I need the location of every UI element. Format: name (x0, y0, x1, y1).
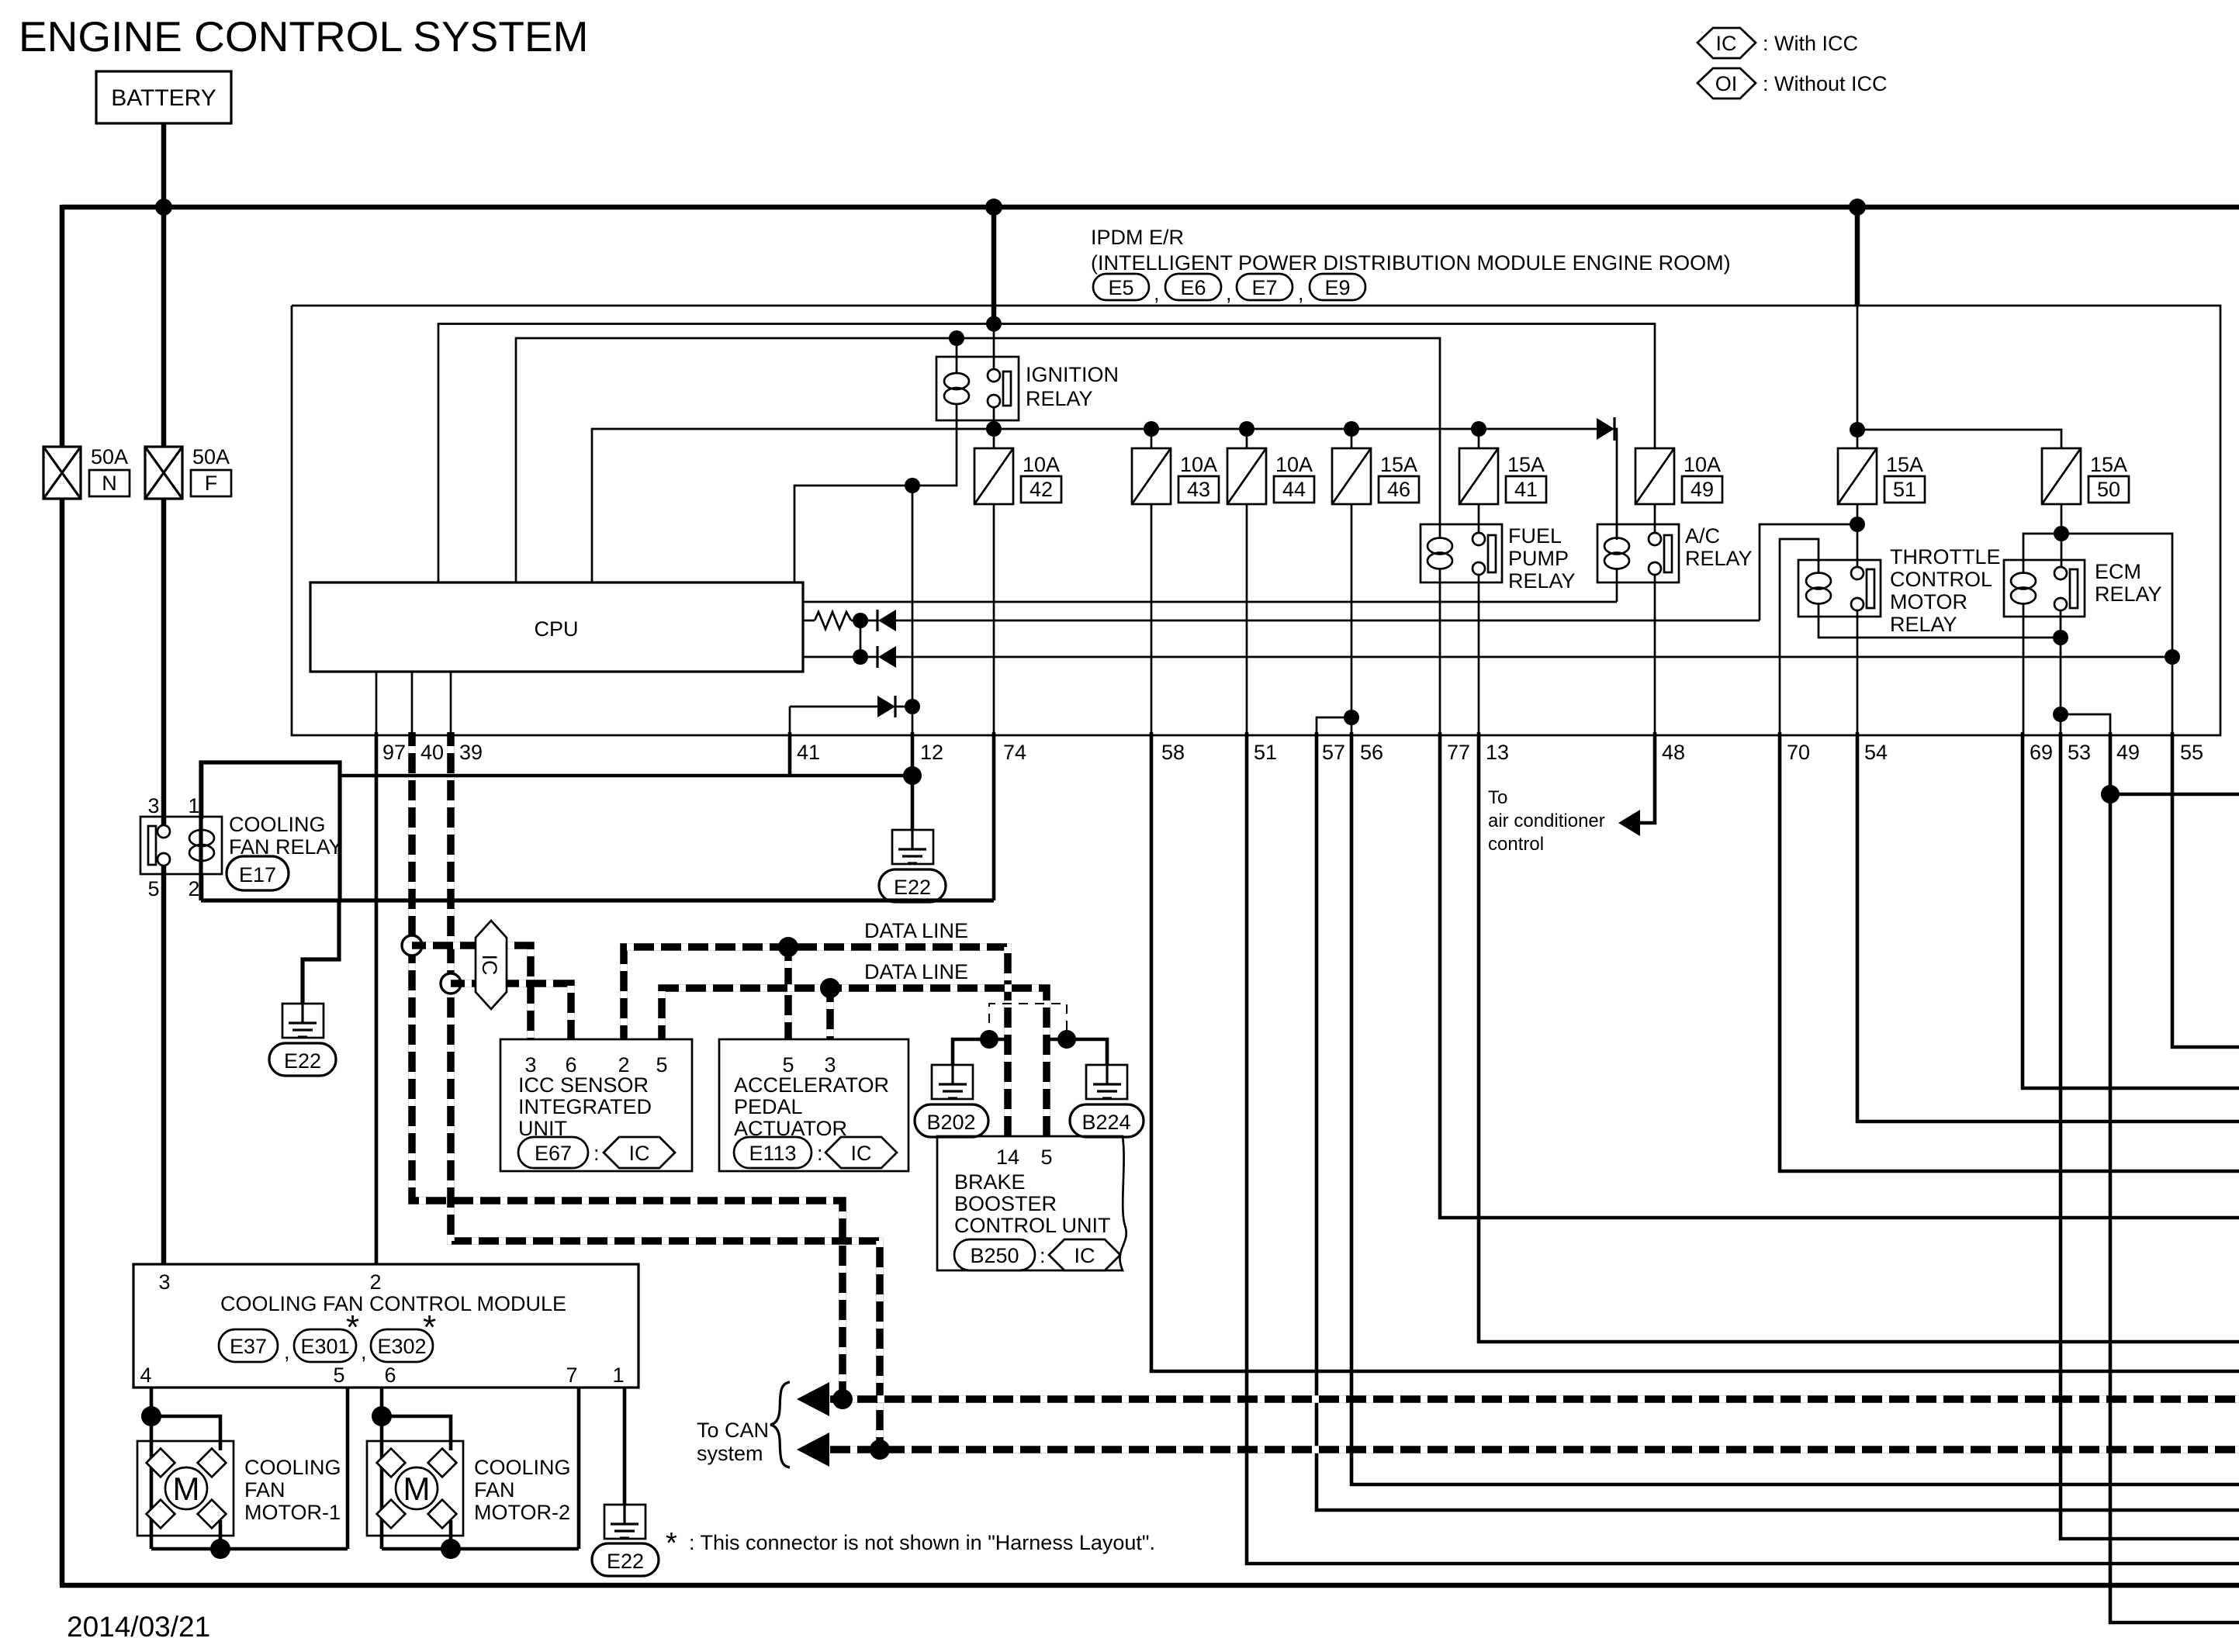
wire pin49 long drop (2110, 732, 2239, 1623)
fuse 50A N (43, 445, 130, 499)
connector E9 (1310, 274, 1365, 300)
svg-text:54: 54 (1864, 741, 1888, 764)
fuse F50 15A (2042, 448, 2129, 504)
svg-text:,: , (284, 1340, 290, 1363)
fuse F43 10A (1132, 448, 1219, 504)
wire CPU line A to A/C coil (803, 601, 1617, 603)
svg-text:44: 44 (1282, 478, 1306, 501)
svg-text:39: 39 (459, 741, 483, 764)
node motor2 bottom (441, 1539, 461, 1559)
svg-text:ENGINE CONTROL SYSTEM: ENGINE CONTROL SYSTEM (19, 12, 588, 60)
svg-text:42: 42 (1030, 478, 1053, 501)
svg-text:41: 41 (1514, 478, 1538, 501)
wire pin69 to right edge (2023, 732, 2239, 1088)
svg-text:DATA LINE: DATA LINE (864, 960, 968, 983)
svg-text:15A: 15A (2090, 453, 2127, 476)
wire fuse 46 to pin 56 (1351, 504, 1353, 735)
node fuse 50 output (2054, 526, 2069, 541)
wire pin13 to right edge (1479, 732, 2239, 1342)
wire IPDM inner feed B (516, 338, 1440, 582)
wire throttle coil feed from pin70 (1780, 539, 1819, 735)
ground B202 (932, 1065, 973, 1099)
svg-text:: This connector is not shown: : This connector is not shown in "Harnes… (689, 1531, 1155, 1554)
fuse F42 10A (974, 448, 1061, 504)
brake booster control unit box (937, 1136, 1126, 1270)
svg-text:43: 43 (1187, 478, 1210, 501)
svg-text:10A: 10A (1180, 453, 1217, 476)
wire CAN line 1 to right edge (809, 1395, 2239, 1403)
connector E22 oval module (592, 1543, 659, 1576)
wire fuse 42 to pin 74 (993, 504, 995, 735)
svg-text:ICC SENSOR: ICC SENSOR (518, 1073, 649, 1097)
svg-text:ACCELERATOR: ACCELERATOR (734, 1073, 889, 1097)
wire CAN line 2 to right edge (809, 1446, 2239, 1453)
svg-text:46: 46 (1387, 478, 1410, 501)
svg-text:58: 58 (1161, 741, 1185, 764)
svg-text:E67: E67 (535, 1142, 572, 1165)
wire pin12 drop inside IPDM (912, 486, 914, 735)
svg-text:COOLING: COOLING (474, 1456, 571, 1479)
wire pin56 to right edge (1351, 732, 2239, 1484)
svg-text:control: control (1488, 834, 1544, 855)
svg-text:13: 13 (1486, 741, 1509, 764)
svg-text:CONTROL UNIT: CONTROL UNIT (954, 1214, 1111, 1237)
wire fuel pump contact to pin13 (1478, 575, 1480, 735)
wire diode to A/C coil (1614, 429, 1617, 524)
svg-text:10A: 10A (1023, 453, 1060, 476)
wire ECM coil feed (2023, 534, 2061, 562)
ECM relay K5 (2004, 560, 2162, 617)
wire CPU pin39 stub (450, 672, 452, 735)
wire battery to bus (161, 123, 167, 207)
wire pin58 to right edge (1151, 732, 2239, 1371)
svg-text:56: 56 (1360, 741, 1383, 764)
node open circle pin39 branch (441, 973, 461, 994)
wire ignition feed thick (991, 207, 997, 324)
wire pin70 to right edge (1780, 732, 2239, 1171)
connector B224 oval (1070, 1104, 1144, 1137)
svg-text::: : (1040, 1244, 1046, 1267)
svg-text:M: M (173, 1471, 200, 1507)
arrow CAN2 (797, 1433, 829, 1467)
arrow to air conditioner control (1618, 810, 1640, 836)
svg-text:1: 1 (188, 794, 199, 817)
svg-text:IC: IC (1716, 32, 1737, 55)
wire accel pin3 drop (826, 988, 834, 1039)
svg-text:2: 2 (369, 1270, 381, 1294)
svg-text:51: 51 (1254, 741, 1277, 764)
wire data line 1 (624, 947, 1008, 1136)
fuse 50A F (145, 445, 231, 499)
wire motor2 M to bottom (449, 1520, 453, 1549)
cooling fan relay box E17 (140, 762, 343, 900)
connector E6 (1165, 274, 1221, 300)
node ignition coil feed (949, 330, 964, 346)
wire motor2 bottom bus (382, 1547, 579, 1551)
svg-text:2014/03/21: 2014/03/21 (67, 1611, 210, 1643)
svg-text:15A: 15A (1380, 453, 1417, 476)
svg-text:3: 3 (147, 794, 159, 817)
svg-text:41: 41 (797, 741, 820, 764)
svg-text:77: 77 (1447, 741, 1470, 764)
svg-text:2: 2 (188, 877, 199, 900)
svg-text:69: 69 (2030, 741, 2053, 764)
wire motor1 top link (151, 1416, 220, 1450)
svg-text:E6: E6 (1180, 276, 1206, 299)
svg-text:50: 50 (2097, 478, 2120, 501)
svg-text:53: 53 (2068, 741, 2091, 764)
node CAN2 junction (870, 1439, 890, 1460)
wire ignition coil return (794, 420, 957, 582)
legend IC hexagon: With ICC (1697, 28, 1858, 58)
wire pin57 to right edge (1317, 732, 2239, 1510)
wire data line 2 (662, 988, 1047, 1136)
node fuse 46 tap (1344, 421, 1359, 437)
node diode3 to pin12 wire (905, 699, 920, 714)
fuse F51 15A (1838, 448, 1925, 504)
connector B202 oval (915, 1104, 988, 1137)
wire bottom border from fuse N (60, 1583, 2239, 1588)
node pin12 ground junction (903, 766, 922, 785)
svg-text:F: F (205, 472, 218, 495)
svg-text:A/C: A/C (1685, 524, 1720, 548)
wire battery to fuse F (161, 207, 167, 447)
wire throttle contact to pin54 (1857, 610, 1859, 735)
arrow CAN1 (797, 1382, 829, 1416)
wire A/C contact to pin48 (1654, 575, 1656, 735)
node fuse 42 tap (986, 421, 1002, 437)
wire pin74 thick drop (992, 732, 996, 900)
svg-text:THROTTLE: THROTTLE (1890, 545, 2001, 569)
wire pin40 CAN dashed (412, 732, 843, 1399)
wire fuse 41 feed (1478, 429, 1480, 448)
svg-text:PUMP: PUMP (1508, 547, 1569, 570)
wire main battery bus (62, 205, 2239, 210)
diode D3 cooling fan drive (790, 696, 912, 717)
svg-text:E22: E22 (894, 876, 931, 899)
throttle control motor relay K4 (1798, 545, 2001, 636)
node B202 tap (980, 1030, 998, 1049)
wire ignition contact to fuse bus (993, 407, 995, 448)
fuse F46 15A (1332, 448, 1419, 504)
wire pin41 riser (789, 707, 791, 735)
svg-text:: Without ICC: : Without ICC (1763, 72, 1888, 95)
wire CPU pin40 stub (411, 672, 414, 735)
node fuse 51 to fuse 50 tap (1850, 422, 1865, 437)
svg-text:15A: 15A (1507, 453, 1545, 476)
A/C relay K3 (1597, 524, 1753, 582)
node open circle pin40 branch (402, 935, 422, 956)
svg-text:70: 70 (1787, 741, 1810, 764)
resistor R1 (803, 612, 860, 629)
svg-text:To: To (1488, 787, 1507, 808)
wire ignition contact drop (993, 324, 995, 371)
wire module pin4 to motor1 (150, 1388, 154, 1549)
wire accel pin5 drop (784, 947, 792, 1039)
wire fuse 44 to pin 51 (1246, 504, 1248, 735)
svg-text:CONTROL: CONTROL (1890, 568, 1992, 591)
svg-text:RELAY: RELAY (1026, 387, 1093, 410)
svg-text:40: 40 (420, 741, 444, 764)
svg-text:5: 5 (1040, 1146, 1052, 1169)
node resistor diode junction (853, 613, 868, 628)
svg-text:3: 3 (158, 1270, 170, 1294)
wire A/C coil to CPU line A (1616, 582, 1618, 602)
svg-text:E5: E5 (1108, 276, 1133, 299)
svg-text:IGNITION: IGNITION (1026, 363, 1119, 386)
wire left branch to fuse N (60, 205, 65, 447)
wire fuse 43 feed (1151, 429, 1153, 448)
svg-text:12: 12 (920, 741, 943, 764)
wire ECM coil to pin69 (2023, 617, 2025, 735)
svg-text:,: , (1298, 282, 1304, 305)
svg-text:57: 57 (1322, 741, 1345, 764)
cooling fan motor 2 (367, 1441, 571, 1536)
svg-text:BOOSTER: BOOSTER (954, 1192, 1057, 1215)
svg-text:55: 55 (2180, 741, 2203, 764)
svg-text:,: , (361, 1340, 367, 1363)
legend OI hexagon: Without ICC (1697, 68, 1888, 98)
wire B202 ground link (953, 1039, 1008, 1065)
node data line1 accel tap (778, 937, 798, 957)
svg-text:M: M (403, 1471, 431, 1507)
svg-text:COOLING: COOLING (229, 813, 326, 836)
svg-text:49: 49 (1690, 478, 1714, 501)
wire dashed branch to ICC pin6 (451, 983, 571, 1039)
node motor2 top (372, 1406, 392, 1426)
wire ECM fuses feed thick (1855, 207, 1860, 306)
battery B1 (96, 71, 231, 123)
wire fuse 46 feed (1351, 429, 1353, 448)
svg-text:5: 5 (147, 877, 159, 900)
accelerator pedal actuator box (719, 1039, 908, 1171)
wire diode junction link (860, 620, 862, 657)
node ECM contact throttle coil (2053, 630, 2068, 645)
svg-text:FAN: FAN (474, 1478, 515, 1502)
connector E7 (1237, 274, 1293, 300)
svg-text:10A: 10A (1275, 453, 1313, 476)
svg-text:50A: 50A (91, 445, 128, 468)
wire relay pin2 coil return (200, 874, 204, 900)
svg-text:IC: IC (478, 955, 501, 976)
svg-text:RELAY: RELAY (1890, 613, 1957, 636)
svg-text:DATA LINE: DATA LINE (864, 919, 968, 942)
svg-text:E301: E301 (300, 1335, 349, 1358)
node battery junction (155, 199, 172, 216)
wire IPDM inner feed A (438, 324, 1655, 583)
svg-text:E22: E22 (607, 1550, 644, 1573)
connector E22 oval pin12 (879, 869, 946, 902)
svg-text:,: , (1154, 282, 1160, 305)
svg-text:51: 51 (1893, 478, 1916, 501)
svg-text:E17: E17 (239, 863, 276, 886)
svg-text:50A: 50A (192, 445, 230, 468)
wire pin48 to air conditioner arrow (1639, 732, 1655, 823)
wire motor1 M to bottom (219, 1520, 223, 1549)
wire fuse 43 to pin 58 (1151, 504, 1153, 735)
node motor1 top (141, 1406, 161, 1426)
svg-text:B250: B250 (970, 1244, 1019, 1267)
svg-text:*: * (423, 1308, 436, 1346)
ICC sensor integrated unit box (500, 1039, 692, 1171)
connector E5 (1093, 274, 1149, 300)
wire CPU pin97 stub (375, 672, 378, 735)
svg-text:system: system (697, 1442, 763, 1465)
brace CAN (770, 1382, 790, 1467)
wire pin39 CAN dashed (451, 732, 880, 1450)
svg-text:MOTOR-1: MOTOR-1 (244, 1501, 341, 1524)
svg-text:BATTERY: BATTERY (111, 85, 216, 111)
wire B224 ground link (1047, 1039, 1107, 1065)
node pin49 branch (2101, 785, 2120, 804)
wire cooling fan box ground drop (303, 900, 339, 1004)
wire pin97 to module pin2 (375, 732, 379, 1264)
wire A/C coil drop (1616, 524, 1618, 540)
node diode2 junction (853, 649, 868, 665)
wire pin54 to right edge (1857, 732, 2239, 1121)
wire fuse 50 to pin 55 branch (2061, 534, 2172, 735)
diode D2 (803, 646, 2172, 668)
svg-text:E302: E302 (377, 1335, 426, 1358)
wire module pin5 drop (346, 1388, 350, 1549)
svg-text:5: 5 (333, 1363, 344, 1387)
svg-text::: : (817, 1142, 823, 1165)
svg-text:BRAKE: BRAKE (954, 1170, 1026, 1194)
svg-text:PEDAL: PEDAL (734, 1095, 803, 1118)
wire fuse 50 feed (1857, 430, 2061, 448)
node data line2 accel tap (820, 978, 840, 998)
ground E22 below pin12 (892, 830, 933, 864)
svg-text:CPU: CPU (534, 617, 578, 641)
svg-text:49: 49 (2116, 741, 2140, 764)
svg-text::: : (593, 1142, 600, 1165)
svg-text:ECM: ECM (2095, 560, 2141, 583)
svg-text:(INTELLIGENT POWER DISTRIBUTIO: (INTELLIGENT POWER DISTRIBUTION MODULE E… (1091, 251, 1731, 275)
node fuse 41 tap (1471, 421, 1486, 437)
svg-text:IC: IC (851, 1142, 872, 1165)
fuse F44 10A (1227, 448, 1314, 504)
ignition relay K1 (936, 357, 1119, 420)
node motor1 bottom (210, 1539, 230, 1559)
svg-text:IC: IC (1075, 1244, 1095, 1267)
fuse F41 15A (1459, 448, 1546, 504)
IPDM E/R box (292, 306, 2220, 735)
svg-text:air conditioner: air conditioner (1488, 810, 1605, 831)
svg-text:E9: E9 (1324, 276, 1350, 299)
svg-text:97: 97 (382, 741, 406, 764)
svg-text:RELAY: RELAY (2095, 582, 2162, 606)
svg-text:To CAN: To CAN (697, 1419, 769, 1442)
IC hexagon variant marker (476, 921, 507, 1009)
svg-text:FAN: FAN (244, 1478, 285, 1502)
svg-text:E37: E37 (230, 1335, 267, 1358)
node coil return to pin12 (905, 478, 920, 493)
svg-text:IPDM E/R: IPDM E/R (1091, 226, 1184, 249)
svg-text:: With ICC: : With ICC (1763, 32, 1858, 55)
svg-text:6: 6 (384, 1363, 396, 1387)
svg-text:15A: 15A (1886, 453, 1923, 476)
svg-text:74: 74 (1003, 741, 1026, 764)
svg-text:10A: 10A (1684, 453, 1721, 476)
wire fuel pump coil to pin77 (1439, 582, 1441, 735)
node fuse 44 tap (1239, 421, 1254, 437)
svg-text:RELAY: RELAY (1508, 569, 1576, 593)
wire module pin1 to ground (623, 1388, 627, 1505)
wire dashed branch to ICC pin3 (412, 945, 531, 1039)
svg-text:5: 5 (656, 1053, 667, 1077)
wire pin77 to right edge (1440, 732, 2239, 1218)
svg-text:FUEL: FUEL (1508, 524, 1562, 548)
wire ECM fuse 51 feed (1857, 306, 1859, 448)
svg-text:E113: E113 (749, 1142, 796, 1165)
cooling fan motor 1 (137, 1441, 341, 1536)
svg-text:MOTOR-2: MOTOR-2 (474, 1501, 570, 1524)
node B224 tap (1057, 1030, 1076, 1049)
ground E22 below cooling fan box (282, 1004, 324, 1038)
svg-text:B202: B202 (926, 1111, 975, 1134)
svg-text:14: 14 (996, 1146, 1019, 1169)
wire A/C contact drop from fuse 49 (1654, 504, 1656, 533)
diode D1 (860, 610, 1760, 631)
thin dashed connector outline B202 B224 (989, 1004, 1067, 1039)
wire relay pin1 coil feed (200, 762, 204, 819)
wire fuel pump contact drop (1478, 504, 1480, 533)
wire pin12 drop (911, 732, 915, 830)
wire fuse 44 feed (1246, 429, 1248, 448)
svg-text:7: 7 (566, 1363, 577, 1387)
svg-text:48: 48 (1662, 741, 1685, 764)
svg-text:1: 1 (612, 1363, 624, 1387)
node bus junction ignition (985, 199, 1002, 216)
svg-text:E7: E7 (1251, 276, 1277, 299)
wire module pin7 drop (577, 1388, 581, 1549)
CPU box U1 (310, 582, 803, 672)
svg-text:4: 4 (140, 1363, 151, 1387)
wire module pin6 to motor2 (380, 1388, 384, 1549)
fuel pump relay K2 (1421, 524, 1576, 593)
pin numbers along IPDM bottom (382, 741, 2203, 764)
diode D4 on fuse bus (1597, 418, 1614, 440)
wire throttle coil return (1819, 617, 2061, 638)
wire pin57 elbow to fuse46 line (1317, 717, 1351, 735)
fuse F49 10A (1635, 448, 1722, 504)
svg-text:*: * (346, 1308, 359, 1346)
svg-text:B224: B224 (1081, 1111, 1130, 1134)
svg-text:COOLING FAN CONTROL MODULE: COOLING FAN CONTROL MODULE (220, 1292, 566, 1315)
node bus junction ECM (1849, 199, 1866, 216)
wire diode1 line to throttle contact (1760, 524, 1857, 620)
wire fuse F down to cooling fan relay (161, 499, 167, 828)
svg-text:MOTOR: MOTOR (1890, 590, 1967, 613)
wire branch to pin49 (2061, 714, 2110, 735)
svg-text:INTEGRATED: INTEGRATED (518, 1095, 652, 1118)
wire cooling fan relay to pin41 pin12 (341, 774, 912, 778)
wire pin51 to right edge (1247, 732, 2239, 1564)
connector E22 oval cooling fan (269, 1043, 336, 1076)
node CPU line C to pin 55 wire (2165, 649, 2180, 665)
svg-text:COOLING: COOLING (244, 1456, 341, 1479)
wire motor2 top link (382, 1416, 451, 1450)
svg-text:,: , (1226, 282, 1232, 305)
wire IPDM inner feed C fuse bus left part (592, 429, 1598, 582)
svg-text:E22: E22 (284, 1049, 321, 1073)
wire fuse N down left border (60, 499, 65, 1585)
wire ECM contact down (2060, 610, 2062, 735)
svg-text:RELAY: RELAY (1685, 547, 1753, 570)
node pin53 pin49 split (2053, 707, 2068, 722)
node CAN1 junction (832, 1389, 853, 1409)
node fuse51 throttle contact (1850, 517, 1865, 532)
